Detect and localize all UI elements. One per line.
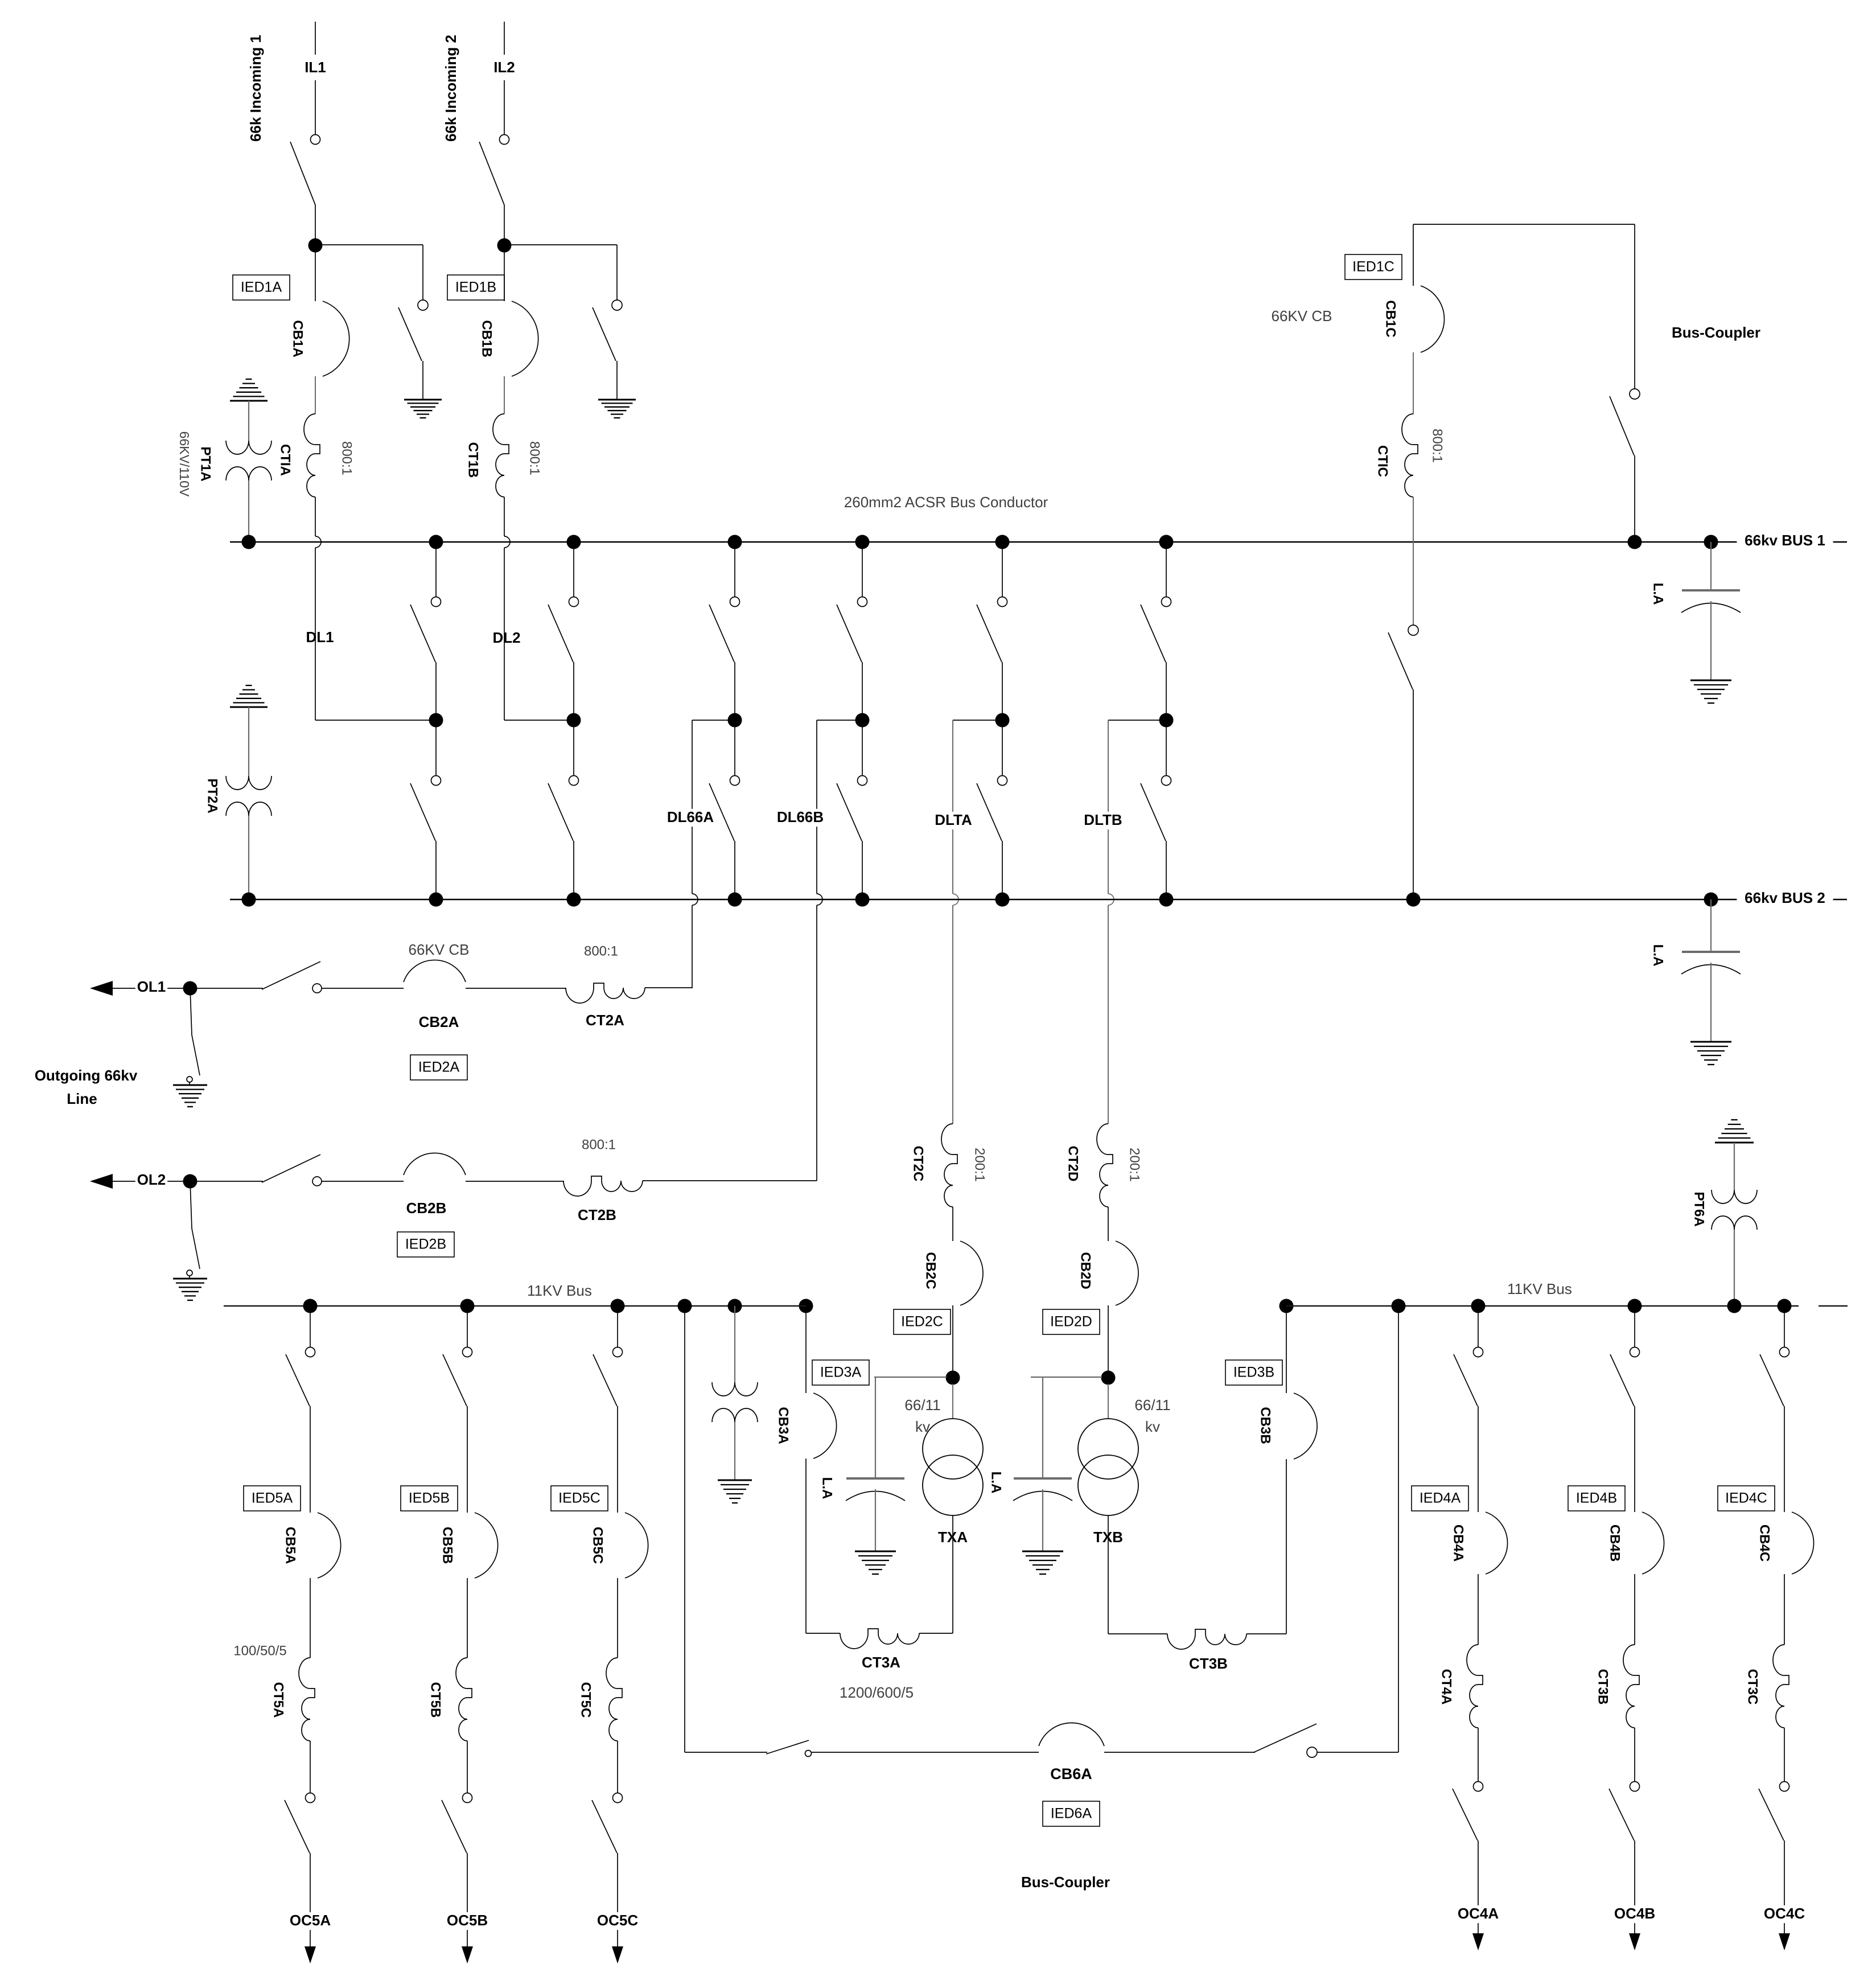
wire xyxy=(315,205,316,245)
label CT2B xyxy=(578,1206,616,1223)
CT CTIC xyxy=(1402,414,1418,497)
disconnector switch IL2 xyxy=(479,135,509,206)
svg-text:CT2A: CT2A xyxy=(586,1012,624,1029)
wire xyxy=(643,1180,817,1181)
disconnector switch CB6A left xyxy=(766,1740,812,1757)
node junction TXB xyxy=(1101,1371,1116,1385)
label OC5B xyxy=(447,1912,488,1930)
svg-text:66kv BUS 1: 66kv BUS 1 xyxy=(1745,532,1825,549)
arrow outgoing OL2 xyxy=(90,1174,190,1189)
svg-text:66/11: 66/11 xyxy=(1134,1396,1170,1414)
wire xyxy=(617,1741,618,1793)
svg-text:DLTB: DLTB xyxy=(1084,811,1122,828)
wire xyxy=(467,1578,468,1658)
ground ES1B xyxy=(598,400,636,418)
arrow outgoing OC5B xyxy=(462,1946,473,1963)
label CB4C xyxy=(1757,1525,1772,1562)
arrow outgoing OC4C xyxy=(1779,1933,1790,1950)
svg-text:IL1: IL1 xyxy=(305,59,326,76)
svg-text:260mm2 ACSR Bus Conductor: 260mm2 ACSR Bus Conductor xyxy=(844,494,1048,511)
wire xyxy=(805,1306,807,1393)
breaker CB1C xyxy=(1421,286,1444,352)
svg-text:CB2A: CB2A xyxy=(419,1013,459,1030)
wire xyxy=(1478,1841,1479,1933)
wire CB6A left xyxy=(685,1306,767,1752)
ground PT1A xyxy=(230,379,268,401)
label 66kv BUS 2 xyxy=(1737,889,1833,907)
node junction TXA xyxy=(946,1371,960,1385)
disconnector switch OL2 xyxy=(190,1155,322,1186)
wire xyxy=(734,1306,735,1382)
svg-text:IED1B: IED1B xyxy=(455,280,496,295)
label CT2C xyxy=(911,1146,926,1182)
wire hop over bus2 xyxy=(817,894,822,905)
svg-text:PT6A: PT6A xyxy=(1692,1192,1707,1226)
svg-text:OL2: OL2 xyxy=(137,1171,166,1188)
svg-text:66KV CB: 66KV CB xyxy=(1272,307,1332,324)
svg-text:CT2D: CT2D xyxy=(1065,1146,1081,1182)
svg-text:100/50/5: 100/50/5 xyxy=(233,1643,286,1658)
wire xyxy=(617,1578,618,1658)
IED U IED2B xyxy=(397,1232,454,1257)
svg-text:800:1: 800:1 xyxy=(584,943,618,959)
wire xyxy=(1108,1305,1109,1371)
CT CT1B xyxy=(493,414,509,497)
CT CT2A xyxy=(566,983,645,1003)
wire xyxy=(248,480,249,542)
svg-text:800:1: 800:1 xyxy=(582,1137,616,1152)
IED U IED2D xyxy=(1043,1309,1100,1334)
wire xyxy=(952,1384,953,1419)
bus 66kv BUS 2 xyxy=(230,899,1847,901)
svg-text:1200/600/5: 1200/600/5 xyxy=(840,1684,914,1701)
disconnector switch xyxy=(592,1793,623,1854)
arrester L.A TXB xyxy=(1013,1478,1072,1574)
wire hop over bus1 xyxy=(504,536,510,548)
svg-text:OC5B: OC5B xyxy=(447,1912,488,1929)
label CT2A xyxy=(586,1012,624,1029)
label CB4B xyxy=(1607,1525,1623,1562)
label DLTB xyxy=(1083,811,1124,829)
disconnector switch CB6A right xyxy=(1254,1724,1317,1757)
wire xyxy=(952,1207,953,1241)
wire L.A branch TXA xyxy=(874,1377,947,1478)
node xyxy=(678,1299,692,1313)
CT CT5C xyxy=(606,1658,622,1741)
svg-text:IED2B: IED2B xyxy=(405,1236,446,1252)
label 260mm2 ACSR Bus Conductor xyxy=(844,494,1048,511)
label TXA xyxy=(937,1529,969,1547)
arrester L.A bus2 xyxy=(1681,952,1741,1065)
wire xyxy=(248,816,249,899)
wire xyxy=(1478,1574,1479,1645)
label CB1C xyxy=(1383,300,1398,337)
ground ES1A xyxy=(404,400,442,418)
breaker CB5A xyxy=(318,1513,341,1578)
svg-text:66KV CB: 66KV CB xyxy=(409,941,470,958)
label L.A xyxy=(1651,583,1666,605)
svg-text:66kv BUS 2: 66kv BUS 2 xyxy=(1745,889,1825,906)
label CT5A xyxy=(271,1682,286,1718)
wire xyxy=(466,988,566,989)
wire xyxy=(1634,1841,1635,1933)
bus 66kv BUS 1 xyxy=(230,541,1847,543)
svg-text:IED5C: IED5C xyxy=(558,1490,600,1506)
wire xyxy=(315,245,423,300)
svg-text:66/11: 66/11 xyxy=(904,1396,940,1414)
svg-text:IED2D: IED2D xyxy=(1050,1314,1092,1330)
disconnector+wire feeder CB5A xyxy=(286,1299,318,1513)
svg-text:CT3C: CT3C xyxy=(1745,1669,1760,1705)
svg-text:OC4A: OC4A xyxy=(1458,1905,1499,1922)
disconnector+wire feeder CB5C xyxy=(593,1299,625,1513)
label CB5A xyxy=(283,1527,298,1564)
CT CT3C xyxy=(1773,1645,1789,1728)
wire xyxy=(1634,1574,1635,1645)
breaker CB2D xyxy=(1116,1241,1138,1305)
svg-text:11KV Bus: 11KV Bus xyxy=(527,1282,592,1299)
label CB5B xyxy=(440,1527,455,1564)
transformer TXA xyxy=(923,1419,983,1515)
wire xyxy=(1413,352,1414,414)
label 66k Incoming 2 xyxy=(442,35,459,142)
label OC4C xyxy=(1764,1905,1805,1923)
label PT2A xyxy=(205,778,220,813)
arrow outgoing OC4B xyxy=(1629,1933,1640,1950)
label CT3B xyxy=(1189,1655,1228,1672)
earthing switch ES1A xyxy=(398,300,428,400)
svg-text:66k Incoming 1: 66k Incoming 1 xyxy=(247,35,264,142)
bus 11KV right xyxy=(1286,1305,1848,1307)
svg-text:200:1: 200:1 xyxy=(972,1148,988,1182)
wire CB6A right xyxy=(1317,1306,1398,1752)
svg-text:66KV/110V: 66KV/110V xyxy=(177,432,192,497)
label 66kv BUS 1 xyxy=(1737,532,1833,550)
svg-text:CB4A: CB4A xyxy=(1451,1525,1466,1562)
label 11KV Bus right xyxy=(1507,1280,1572,1297)
svg-text:DL66A: DL66A xyxy=(667,808,714,825)
wire xyxy=(1734,1230,1735,1306)
breaker CB1A xyxy=(323,301,349,376)
disconnector+wire feeder CB5B xyxy=(443,1299,475,1513)
svg-text:CB6A: CB6A xyxy=(1050,1765,1092,1782)
wire CT3B loop xyxy=(1108,1633,1286,1634)
disconnector switch xyxy=(1759,1782,1789,1841)
breaker CB3A xyxy=(813,1393,837,1459)
svg-text:IED5B: IED5B xyxy=(409,1490,450,1506)
node xyxy=(1727,1299,1742,1313)
svg-text:CT1B: CT1B xyxy=(466,442,481,478)
svg-text:IED2A: IED2A xyxy=(418,1059,460,1075)
svg-text:CT2B: CT2B xyxy=(578,1206,616,1223)
disconnector+wire feeder CB4A xyxy=(1454,1299,1486,1513)
svg-text:CB2B: CB2B xyxy=(406,1199,447,1217)
svg-text:CT4A: CT4A xyxy=(1439,1669,1454,1705)
CT CT3A xyxy=(840,1629,919,1649)
label PT6A xyxy=(1692,1192,1707,1226)
svg-text:CB5A: CB5A xyxy=(283,1527,298,1564)
svg-text:800:1: 800:1 xyxy=(527,441,542,475)
breaker CB2B xyxy=(404,1153,466,1175)
label CT3A xyxy=(862,1654,900,1671)
svg-text:L.A: L.A xyxy=(989,1472,1004,1494)
wire xyxy=(315,497,316,536)
label CT5C xyxy=(578,1682,594,1718)
wire xyxy=(812,1752,1039,1753)
node xyxy=(1280,1299,1294,1313)
label 66/11 kv TXA xyxy=(904,1396,940,1435)
arrester L.A TXA xyxy=(846,1478,905,1574)
wire xyxy=(734,1422,735,1480)
wire CT3A loop xyxy=(806,1633,953,1634)
svg-text:CB4C: CB4C xyxy=(1757,1525,1772,1562)
label 66KV/110V xyxy=(177,432,192,497)
label 800:1 xyxy=(339,441,355,475)
wire xyxy=(1478,1728,1479,1781)
svg-text:CB5B: CB5B xyxy=(440,1527,455,1564)
PT PT1A xyxy=(226,441,271,480)
svg-text:IED3B: IED3B xyxy=(1233,1365,1274,1381)
svg-text:CB1B: CB1B xyxy=(479,320,495,357)
svg-text:CT5A: CT5A xyxy=(271,1682,286,1718)
wire hop over bus2 xyxy=(1108,894,1114,905)
label DL1 xyxy=(306,628,334,646)
CT CT3B xyxy=(1167,1629,1246,1649)
arrow outgoing OC4A xyxy=(1472,1933,1484,1950)
ground OL2 xyxy=(173,1279,207,1300)
disconnector switch xyxy=(285,1793,315,1854)
CT CT3B xyxy=(1623,1645,1639,1728)
label CB3A xyxy=(776,1407,791,1444)
label CB4A xyxy=(1451,1525,1466,1562)
label CB2C xyxy=(923,1252,939,1289)
wire xyxy=(467,1853,468,1946)
breaker CB4C xyxy=(1792,1512,1814,1574)
label CB6A xyxy=(1050,1765,1092,1782)
wire xyxy=(504,497,505,536)
wire xyxy=(1413,497,1414,625)
wire xyxy=(504,245,617,300)
node xyxy=(728,1299,742,1313)
label CT3B xyxy=(1595,1669,1611,1705)
ground PT11 xyxy=(718,1480,752,1503)
svg-text:CTIC: CTIC xyxy=(1375,445,1390,477)
svg-text:IED6A: IED6A xyxy=(1051,1806,1092,1822)
earthing switch ES1B xyxy=(593,300,622,400)
wire xyxy=(504,548,567,720)
label CTIC xyxy=(1375,445,1390,477)
label OL2 xyxy=(135,1171,167,1189)
svg-text:CB1A: CB1A xyxy=(290,320,306,357)
CT CT2B xyxy=(563,1176,643,1196)
IED U IED4C xyxy=(1718,1486,1775,1511)
disconnector switch IL1 xyxy=(290,135,320,206)
disconnector switch xyxy=(1453,1782,1483,1841)
label OC4B xyxy=(1614,1905,1655,1923)
IED U IED2C xyxy=(894,1309,951,1334)
arrow outgoing OC5A xyxy=(305,1946,316,1963)
breaker CB5B xyxy=(475,1513,498,1578)
label DLTA xyxy=(933,811,974,829)
wire xyxy=(645,987,692,988)
label CTIA xyxy=(278,444,293,476)
svg-text:200:1: 200:1 xyxy=(1127,1148,1142,1182)
label 800:1 xyxy=(527,441,542,475)
label Bus-Coupler top xyxy=(1672,324,1760,341)
label 200:1 xyxy=(972,1148,988,1182)
wire tap DLTB to CT2D xyxy=(1108,720,1166,1124)
label DL66A xyxy=(665,808,716,827)
wire xyxy=(1108,1515,1109,1634)
svg-text:CT5B: CT5B xyxy=(428,1682,443,1718)
node xyxy=(242,893,256,907)
label 66KV CB xyxy=(1272,307,1332,324)
label CB3B xyxy=(1258,1407,1273,1444)
CT CT2C xyxy=(941,1124,957,1207)
node xyxy=(1704,893,1718,907)
wire hop over bus2 xyxy=(692,894,698,905)
node xyxy=(242,535,256,549)
breaker CB4A xyxy=(1486,1512,1508,1574)
label IL2 xyxy=(488,59,520,77)
IED U IED2A xyxy=(410,1055,467,1080)
svg-text:800:1: 800:1 xyxy=(339,441,355,475)
svg-text:IED3A: IED3A xyxy=(820,1365,862,1381)
disconnector column DLTA xyxy=(977,535,1010,907)
disconnector column DLTB xyxy=(1141,535,1174,907)
svg-text:CB1C: CB1C xyxy=(1383,300,1398,337)
node junction IL1/CB1A xyxy=(308,239,323,253)
disconnector+wire feeder CB4C xyxy=(1760,1299,1792,1513)
svg-text:CB5C: CB5C xyxy=(590,1527,606,1564)
arrow outgoing OC5C xyxy=(612,1946,623,1963)
disconnector column DL66B xyxy=(837,535,870,907)
ground PT2A xyxy=(230,685,268,707)
wire xyxy=(1784,1841,1785,1933)
disconnector switch OL1 xyxy=(190,962,322,993)
IED U IED1B xyxy=(447,275,504,300)
arrow outgoing OL1 xyxy=(90,981,190,996)
node xyxy=(1392,1299,1406,1313)
wire xyxy=(466,1181,563,1182)
wire xyxy=(248,707,249,776)
label L.A xyxy=(820,1477,835,1500)
CT CT5B xyxy=(456,1658,472,1741)
wire xyxy=(1104,1752,1255,1753)
label OL1 xyxy=(135,978,167,996)
wire hop over bus2 xyxy=(953,894,958,905)
svg-text:IED5A: IED5A xyxy=(252,1490,293,1506)
wire xyxy=(310,1853,311,1946)
wire tap DL66A to CT2A xyxy=(692,720,735,988)
wire xyxy=(322,1181,404,1182)
svg-text:OC4C: OC4C xyxy=(1764,1905,1805,1922)
label CB2B xyxy=(406,1199,447,1217)
label OC5A xyxy=(290,1912,331,1930)
label CT1B xyxy=(466,442,481,478)
svg-text:IED2C: IED2C xyxy=(901,1314,943,1330)
disconnector switch bus coupler right xyxy=(1610,389,1640,455)
svg-text:800:1: 800:1 xyxy=(1430,429,1445,463)
wire xyxy=(1710,899,1712,952)
wire xyxy=(248,401,249,441)
wire xyxy=(1108,1207,1109,1241)
CT CT4A xyxy=(1467,1645,1483,1728)
wire top rectangle xyxy=(1413,224,1635,389)
wire tap DLTA to CT2C xyxy=(953,720,1002,1124)
svg-text:OC4B: OC4B xyxy=(1614,1905,1655,1922)
label 800:1 xyxy=(1430,429,1445,463)
breaker CB2A xyxy=(404,960,466,982)
label CB5C xyxy=(590,1527,606,1564)
svg-text:DL66B: DL66B xyxy=(777,808,824,825)
wire xyxy=(322,988,404,989)
PT PT6A xyxy=(1712,1190,1757,1230)
svg-text:PT1A: PT1A xyxy=(198,446,213,481)
label OC5C xyxy=(597,1912,639,1930)
svg-text:L.A: L.A xyxy=(1651,583,1666,605)
wire xyxy=(310,1578,311,1658)
ground PT6A xyxy=(1715,1120,1754,1143)
label DL2 xyxy=(492,629,520,646)
earthing switch OL2 xyxy=(187,1181,200,1279)
svg-text:Bus-Coupler: Bus-Coupler xyxy=(1672,324,1760,341)
svg-text:Outgoing 66kv: Outgoing 66kv xyxy=(35,1067,138,1084)
wire xyxy=(952,1305,953,1371)
svg-text:DL2: DL2 xyxy=(492,629,520,646)
wire tap DL66B to CT2B xyxy=(817,720,862,1181)
label 66/11 kv TXB xyxy=(1134,1396,1170,1435)
breaker CB4B xyxy=(1642,1512,1664,1574)
arrester L.A bus1 xyxy=(1681,590,1741,703)
label OC4A xyxy=(1458,1905,1499,1923)
label 200:1 xyxy=(1127,1148,1142,1182)
wire hop over bus1 xyxy=(315,536,321,548)
svg-text:66k Incoming 2: 66k Incoming 2 xyxy=(442,35,459,142)
label IL1 xyxy=(299,59,331,77)
node xyxy=(1406,893,1421,907)
svg-text:Line: Line xyxy=(67,1090,97,1107)
label CT3C xyxy=(1745,1669,1760,1705)
svg-text:Bus-Coupler: Bus-Coupler xyxy=(1021,1874,1110,1891)
wire xyxy=(1784,1728,1785,1781)
wire xyxy=(1634,1728,1635,1781)
wire xyxy=(1734,1143,1735,1190)
breaker CB2C xyxy=(960,1241,983,1305)
svg-text:IED1A: IED1A xyxy=(241,280,282,295)
label Bus-Coupler bottom xyxy=(1021,1874,1110,1891)
svg-text:CT2C: CT2C xyxy=(911,1146,926,1182)
IED U IED4B xyxy=(1568,1486,1625,1511)
label CB1A xyxy=(290,320,306,357)
disconnector switch xyxy=(442,1793,472,1854)
wire xyxy=(1634,455,1635,542)
disconnector switch xyxy=(1609,1782,1640,1841)
CT CT5A xyxy=(299,1658,315,1741)
svg-text:CB2D: CB2D xyxy=(1078,1252,1093,1289)
disconnector column DL1 xyxy=(410,535,443,907)
label 100/50/5 xyxy=(233,1643,286,1658)
label 1200/600/5 xyxy=(840,1684,914,1701)
PT PT2A xyxy=(226,776,271,816)
CT CT2D xyxy=(1097,1124,1113,1207)
disconnector switch xyxy=(1388,625,1418,689)
node xyxy=(183,1174,198,1189)
breaker CB5C xyxy=(625,1513,648,1578)
svg-text:IL2: IL2 xyxy=(493,59,515,76)
label CB1B xyxy=(479,320,495,357)
bus 11KV left xyxy=(224,1305,806,1307)
